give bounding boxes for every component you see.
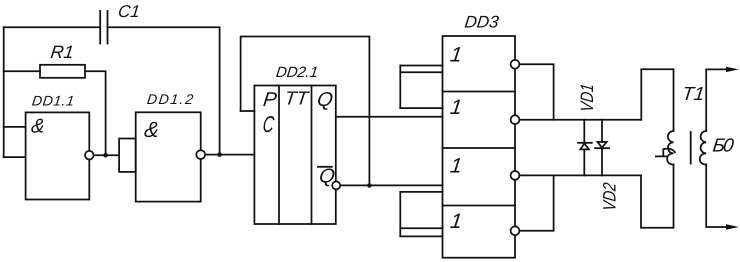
wire C1 to DD1.2 output node (108, 27, 220, 154)
wire DD3 upper input tie second (400, 71, 442, 73)
svg-text:R1: R1 (50, 42, 75, 62)
wire DD3 lower input tie third (400, 227, 442, 229)
inversion bubble DD3 cell3 (511, 171, 520, 180)
svg-text:1: 1 (449, 210, 463, 233)
wire P input (241, 110, 255, 112)
wire DD3 upper input tie vertical (399, 66, 401, 109)
wire Q-bar output to DD3 (336, 184, 442, 186)
wire secondary top to arrow (706, 69, 726, 131)
wire DD3 upper input tie top (400, 65, 442, 67)
svg-text:Б0: Б0 (711, 135, 735, 156)
svg-text:&: & (30, 116, 46, 138)
svg-text:DD1.2: DD1.2 (146, 91, 194, 107)
svg-text:&: & (143, 117, 161, 142)
arrow bottom output (726, 224, 739, 229)
transformer T1 primary winding (667, 131, 673, 165)
wire primary bottom loop (641, 165, 674, 228)
wire feedback loop Q-bar to P (241, 37, 370, 186)
inversion bubble DD3 cell2 (511, 115, 520, 124)
node junction Q-bar / feedback (367, 183, 372, 188)
wire DD3 out3 rail to transformer (515, 174, 641, 176)
wire primary top from rail (641, 69, 673, 131)
diode VD2 (595, 120, 609, 176)
wire DD3 lower input tie vertical (399, 192, 401, 237)
wire DD3 upper input tie third (400, 107, 442, 109)
inversion bubble DD1.1 (85, 151, 94, 160)
svg-text:DD2.1: DD2.1 (275, 64, 319, 81)
wire DD1.1 output (89, 154, 119, 156)
inversion bubble Q-bar (332, 181, 340, 189)
divider DD2.1 left column (278, 86, 280, 225)
wire DD3 lower input tie bottom (400, 235, 442, 237)
svg-text:C1: C1 (117, 2, 141, 21)
node junction DD1.2 out / C1 (217, 152, 222, 157)
svg-text:VD1: VD1 (577, 83, 597, 113)
svg-text:1: 1 (449, 96, 463, 119)
wire R1 left (4, 70, 40, 72)
flip-flop DD2.1 body (254, 86, 335, 225)
gate DD1.1 (26, 112, 90, 199)
wire secondary bottom to arrow (706, 165, 726, 228)
wire Q output to DD3 (336, 116, 443, 118)
wire left vertical input bus (3, 27, 5, 157)
winding start hook (656, 149, 675, 157)
arrow top output (726, 67, 739, 72)
transformer T1 secondary winding (700, 131, 706, 165)
svg-text:VD2: VD2 (600, 182, 620, 212)
svg-text:1: 1 (449, 155, 463, 178)
gate DD1.2 (136, 112, 201, 201)
wire DD3 lower input tie second (400, 191, 442, 193)
inversion bubble DD3 cell4 (511, 226, 520, 235)
diode VD1 (578, 120, 592, 176)
resistor R1 (40, 65, 85, 78)
overbar of Q-bar (318, 166, 332, 168)
inversion bubble DD3 cell1 (511, 60, 520, 69)
input notch DD1.2 (119, 139, 136, 172)
svg-text:T1: T1 (681, 84, 706, 105)
svg-text:P: P (262, 89, 279, 111)
divider DD2.1 right column (311, 86, 313, 225)
wire DD3 out4 (515, 175, 554, 230)
svg-text:Q: Q (316, 89, 334, 111)
node junction DD1.1 out / R1 (103, 153, 108, 158)
divider DD3 cell2/3 (443, 147, 516, 149)
svg-text:1: 1 (449, 44, 463, 67)
svg-text:C: C (261, 111, 275, 137)
wire DD1.2 output to DD2.1 C input (201, 154, 255, 156)
divider DD3 cell3/4 (443, 205, 516, 207)
svg-text:DD3: DD3 (464, 12, 501, 31)
svg-text:DD1.1: DD1.1 (31, 93, 75, 109)
wire DD3 out2 rail to transformer (515, 119, 641, 121)
wire R1 right to DD1.1 output node (85, 71, 106, 155)
wire DD1.1 input 2 (4, 156, 26, 158)
capacitor C1 (100, 11, 107, 44)
wire DD3 out1 (515, 64, 554, 119)
transformer core (690, 132, 692, 164)
wire top-left rail to C1 (4, 26, 100, 28)
gate block DD3 body (443, 36, 516, 258)
divider DD3 cell1/2 (443, 91, 516, 93)
inversion bubble DD1.2 (196, 150, 205, 159)
wire DD1.1 input 1 (4, 126, 26, 128)
svg-text:TT: TT (283, 89, 310, 110)
